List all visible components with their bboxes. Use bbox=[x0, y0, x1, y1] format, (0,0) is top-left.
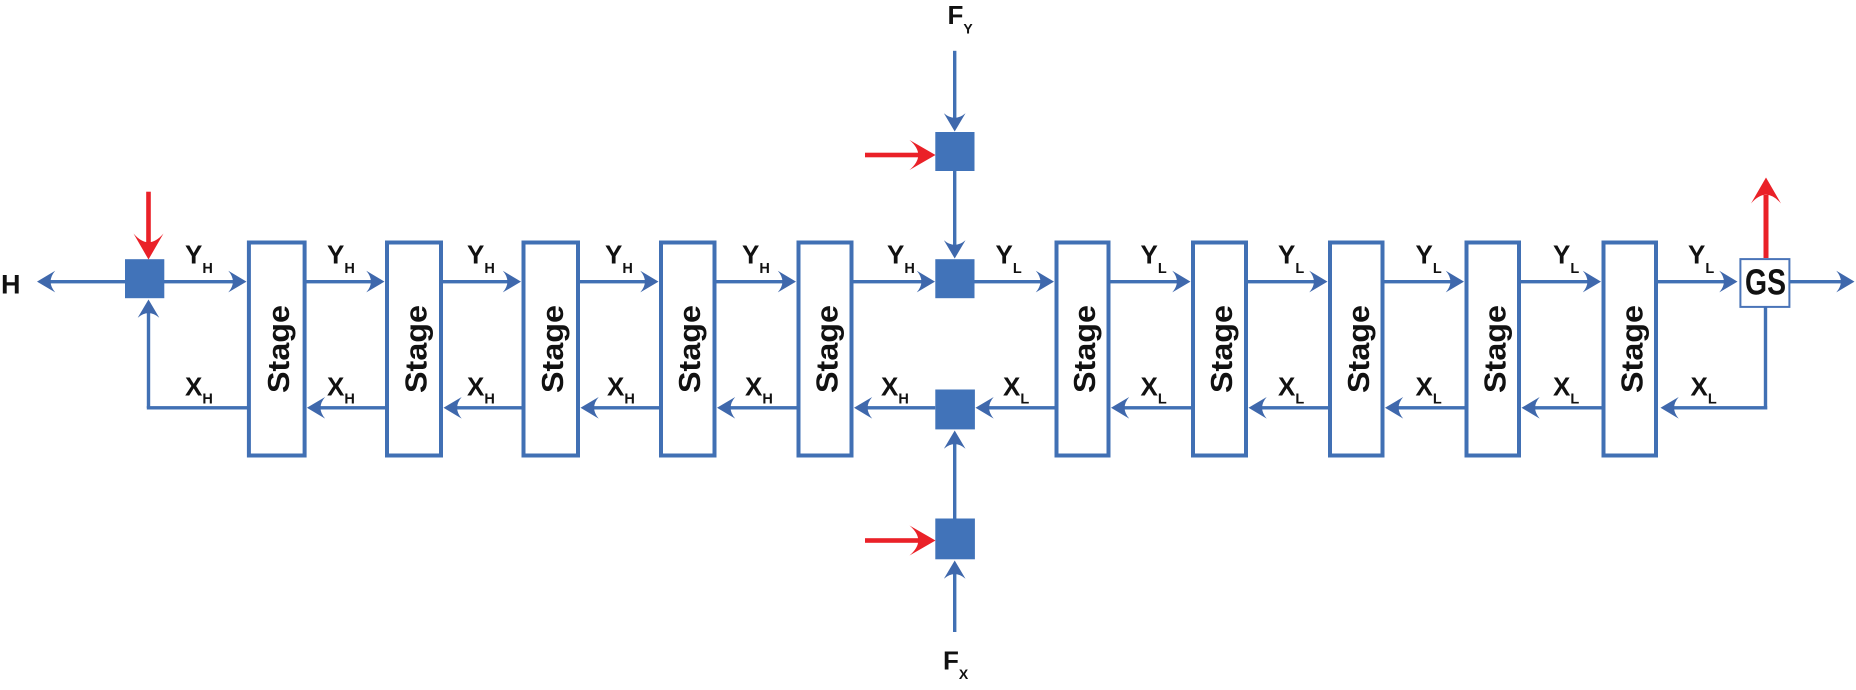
stage box 3 bbox=[524, 243, 579, 456]
wire stage 9 to stage 8 bbox=[1385, 397, 1467, 419]
svg-text:Stage: Stage bbox=[1341, 305, 1376, 393]
wire stage 6 to mixer M4 bbox=[976, 397, 1057, 419]
wire stage 7 to stage 6 bbox=[1111, 397, 1193, 419]
red arrow right into mixer M2 bbox=[865, 140, 936, 170]
wire mixer M5 up to mixer M4 bbox=[944, 431, 966, 519]
separator box GS bbox=[1740, 259, 1789, 307]
wire GS return down and left to stage 10 bbox=[1661, 307, 1768, 419]
wire stage 9 to stage 10 bbox=[1519, 271, 1601, 293]
wire stage 2 to stage 1 bbox=[307, 397, 387, 419]
wire stage 4 to stage 5 bbox=[715, 271, 797, 293]
wire F_X feed up to mixer M5 bbox=[944, 561, 966, 633]
wire mixer M3 to stage 6 bbox=[975, 271, 1055, 293]
stage box 6 bbox=[1057, 243, 1109, 456]
svg-text:Stage: Stage bbox=[1614, 305, 1649, 393]
svg-text:Stage: Stage bbox=[672, 305, 707, 393]
wire stage 4 to stage 3 bbox=[581, 397, 662, 419]
svg-text:Stage: Stage bbox=[535, 305, 570, 393]
stage box 1 bbox=[249, 243, 305, 456]
stage box 4 bbox=[661, 243, 715, 456]
svg-text:Stage: Stage bbox=[1477, 305, 1512, 393]
wire stage 7 to stage 8 bbox=[1246, 271, 1328, 293]
stage box 2 bbox=[387, 243, 441, 456]
wire stage 8 to stage 7 bbox=[1249, 397, 1331, 419]
red arrow up out of GS bbox=[1751, 178, 1781, 259]
svg-text:Stage: Stage bbox=[399, 305, 434, 393]
wire stage 10 to GS bbox=[1656, 271, 1738, 293]
wire H output from mixer M1 to left edge bbox=[37, 271, 125, 293]
wire stage 8 to stage 9 bbox=[1383, 271, 1465, 293]
svg-text:GS: GS bbox=[1745, 262, 1786, 303]
stage box 9 bbox=[1467, 243, 1520, 456]
svg-text:Stage: Stage bbox=[810, 305, 845, 393]
stage box 10 bbox=[1604, 243, 1657, 456]
wire stage 5 to mixer M3 bbox=[852, 271, 936, 293]
wire stage 1 to stage 2 bbox=[305, 271, 385, 293]
wire stage 3 to stage 2 bbox=[444, 397, 524, 419]
mixer square M1 (H junction) bbox=[125, 259, 164, 298]
wire GS output right bbox=[1789, 271, 1854, 293]
wire stage 1 left and up to mixer M1 bbox=[138, 300, 249, 410]
stage box 5 bbox=[799, 243, 852, 456]
wire stage 3 to stage 4 bbox=[578, 271, 659, 293]
svg-text:Stage: Stage bbox=[261, 305, 296, 393]
stage box 8 bbox=[1330, 243, 1383, 456]
svg-text:Stage: Stage bbox=[1204, 305, 1239, 393]
svg-text:H: H bbox=[1, 269, 21, 299]
mixer square M5 (F_X junction) bbox=[935, 519, 975, 560]
wire mixer M4 to stage 5 bbox=[854, 397, 935, 419]
mixer square M4 (X stream middle) bbox=[935, 390, 975, 430]
mixer square M3 (Y stream middle) bbox=[935, 259, 974, 298]
wire mixer M2 down to mixer M3 bbox=[944, 171, 966, 259]
stage box 7 bbox=[1193, 243, 1246, 456]
wire stage 2 to stage 3 bbox=[441, 271, 521, 293]
wire stage 5 to stage 4 bbox=[717, 397, 799, 419]
wire F_Y feed down to mixer M2 bbox=[944, 51, 966, 132]
wire stage 6 to stage 7 bbox=[1109, 271, 1191, 293]
red arrow right into mixer M5 bbox=[865, 526, 936, 556]
wire stage 10 to stage 9 bbox=[1522, 397, 1604, 419]
wire mixer M1 to stage 1 bbox=[164, 271, 247, 293]
svg-text:Stage: Stage bbox=[1067, 305, 1102, 393]
mixer square M2 (F_Y junction) bbox=[935, 132, 974, 171]
red arrow down into mixer M1 bbox=[134, 192, 164, 260]
